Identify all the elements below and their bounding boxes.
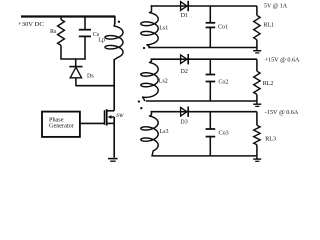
svg-text:5V @ 1A: 5V @ 1A bbox=[264, 3, 288, 9]
svg-text:Ls2: Ls2 bbox=[159, 78, 168, 84]
svg-text:Rs: Rs bbox=[50, 29, 57, 35]
svg-text:Generator: Generator bbox=[49, 122, 74, 129]
svg-text:-15V @ 0.6A: -15V @ 0.6A bbox=[265, 109, 299, 116]
svg-text:SW: SW bbox=[116, 113, 124, 119]
svg-text:Co2: Co2 bbox=[218, 79, 228, 85]
svg-text:+15V @ 0.6A: +15V @ 0.6A bbox=[265, 56, 301, 63]
svg-text:RL2: RL2 bbox=[263, 81, 274, 87]
svg-text:D1: D1 bbox=[181, 13, 188, 19]
svg-text:D3: D3 bbox=[180, 120, 187, 126]
svg-text:Co1: Co1 bbox=[218, 25, 228, 31]
svg-text:Lp: Lp bbox=[98, 38, 105, 44]
svg-text:Ls1: Ls1 bbox=[159, 25, 168, 31]
svg-text:Ds: Ds bbox=[87, 74, 94, 80]
svg-text:RL1: RL1 bbox=[264, 23, 275, 29]
svg-text:+30V DC: +30V DC bbox=[18, 21, 44, 28]
svg-text:RL3: RL3 bbox=[265, 136, 276, 142]
svg-text:Ls3: Ls3 bbox=[160, 129, 169, 135]
svg-text:Co3: Co3 bbox=[219, 131, 229, 137]
svg-text:D2: D2 bbox=[181, 69, 188, 75]
